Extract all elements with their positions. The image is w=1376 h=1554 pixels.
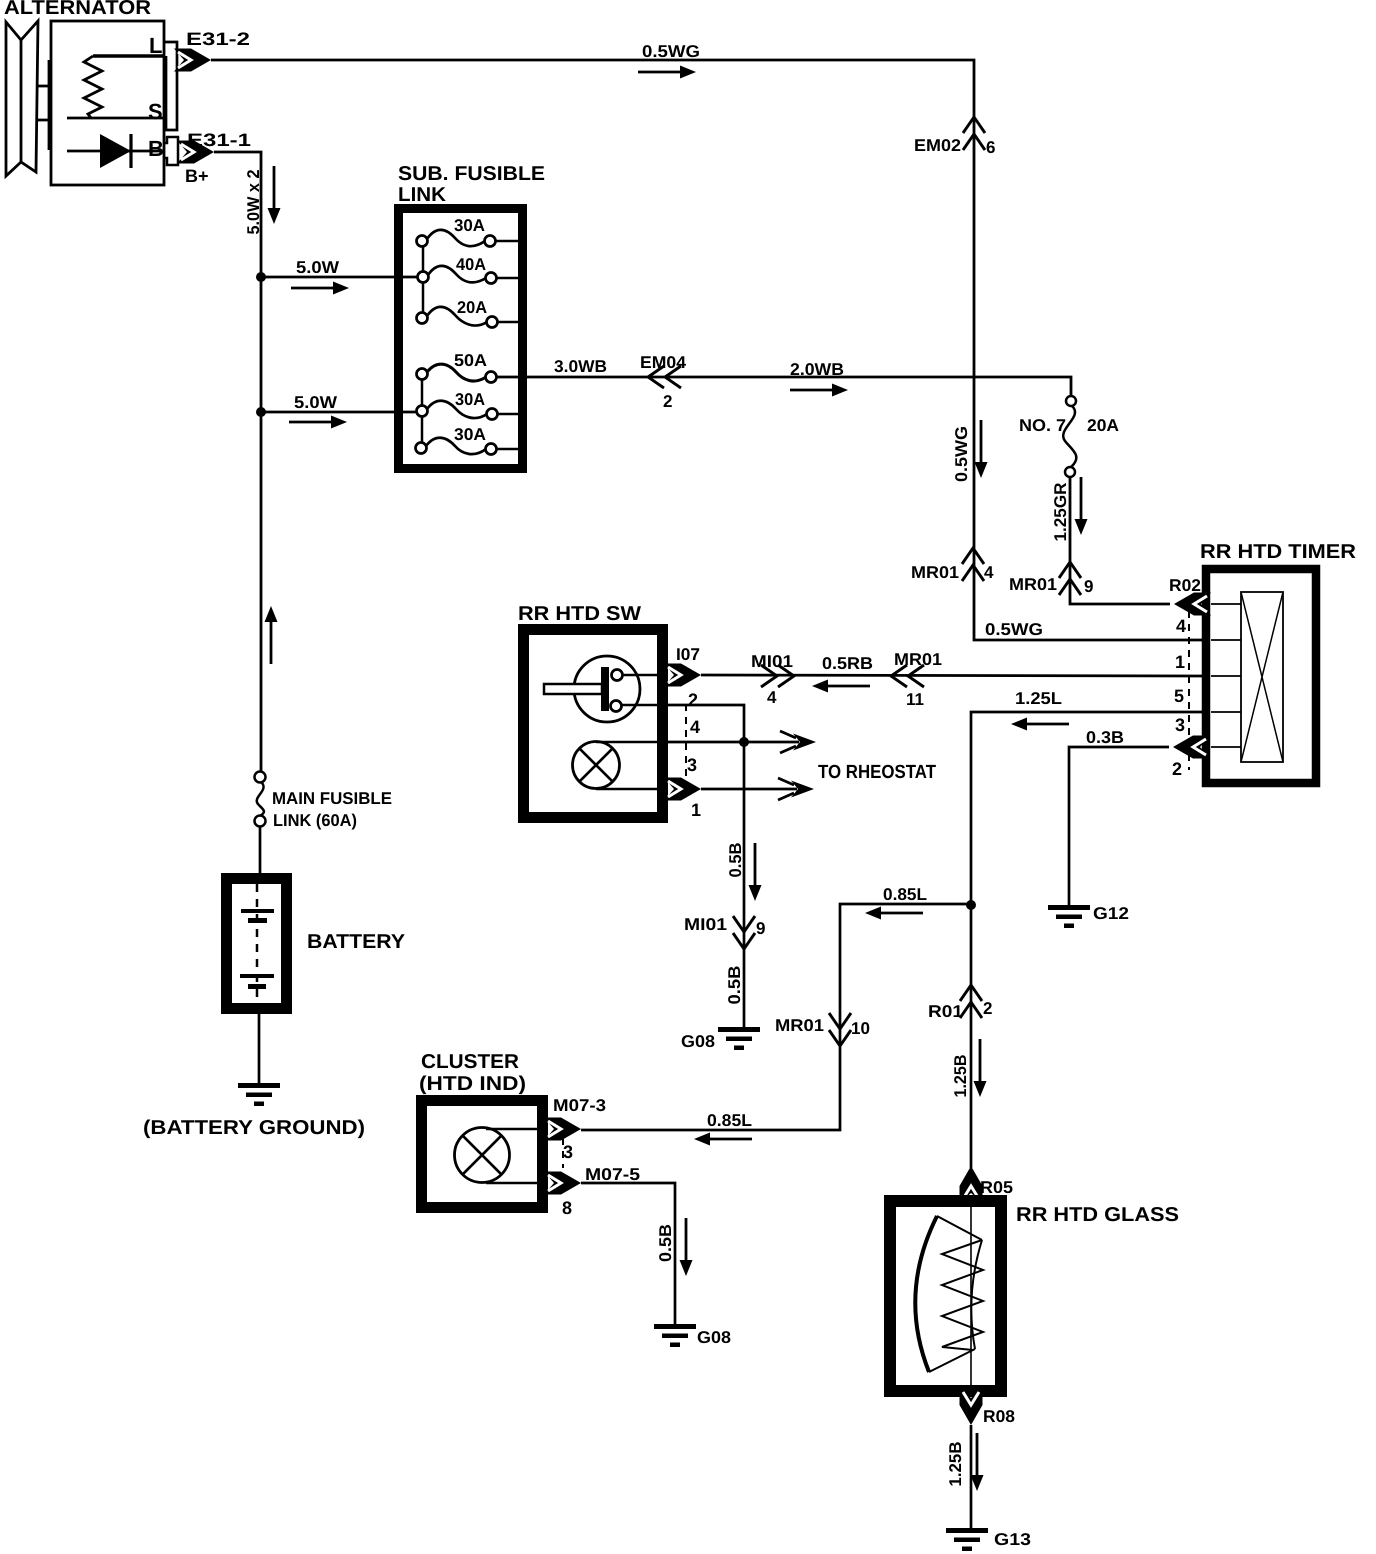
fuse main fusible link	[255, 772, 266, 783]
svg-text:2: 2	[1172, 759, 1182, 779]
svg-text:0.5WG: 0.5WG	[952, 426, 971, 482]
wire E31-2 to corner	[211, 60, 1202, 640]
wire B terminal line	[67, 150, 164, 153]
svg-text:6: 6	[986, 138, 995, 157]
svg-text:M07-5: M07-5	[585, 1165, 640, 1184]
sw dashed pin line	[685, 704, 687, 788]
svg-text:R02: R02	[1169, 576, 1201, 595]
ground G13	[946, 1528, 988, 1551]
svg-text:0.5B: 0.5B	[656, 1224, 675, 1262]
wire 50A output	[496, 377, 1071, 396]
alternator diode	[100, 134, 131, 168]
flow arrow down beside 0.5B	[749, 843, 762, 901]
wire L terminal line	[93, 54, 164, 57]
wire B+ to battery	[214, 152, 261, 772]
node junction lower 5.0W	[256, 407, 266, 417]
svg-text:EM02: EM02	[914, 136, 961, 155]
wire M07-3 to 0.85L corner	[581, 1129, 583, 1132]
svg-text:50A: 50A	[454, 351, 487, 370]
flow arrow right under 5.0W lower	[289, 416, 347, 429]
glass box	[890, 1201, 1001, 1391]
connector EM04 chevrons	[648, 366, 681, 388]
flow arrow down beside 1.25GR	[1075, 477, 1088, 535]
fuse bus lower	[421, 374, 424, 448]
fuse 30A #3	[416, 443, 427, 454]
svg-text:M07-3: M07-3	[553, 1096, 606, 1115]
connector R05 arrow	[960, 1166, 983, 1203]
svg-text:1.25B: 1.25B	[946, 1442, 965, 1487]
wire S terminal line	[67, 117, 164, 120]
wire 0.3B	[1069, 747, 1169, 906]
svg-text:4: 4	[767, 688, 777, 707]
ground G08 cluster	[654, 1324, 696, 1347]
svg-text:30A: 30A	[455, 390, 485, 409]
fuse NO.7 20A	[1066, 396, 1076, 406]
alternator pulley	[6, 21, 51, 176]
wire 1.25GR down to MR01-9 and R02	[1070, 477, 1170, 604]
timer box	[1206, 569, 1316, 783]
svg-text:ALTERNATOR: ALTERNATOR	[4, 0, 152, 19]
svg-text:L: L	[149, 33, 162, 58]
lamp symbol SW	[573, 742, 620, 789]
connector MI01 pin4 chevrons	[761, 665, 794, 687]
flow arrow left under 0.85L upper	[865, 907, 923, 920]
wire lamp bottom	[596, 788, 668, 791]
wire lamp top	[596, 741, 658, 744]
glass wire through	[970, 1196, 972, 1396]
timer dashed pin line	[1188, 598, 1190, 770]
connector I07 arrow	[664, 664, 701, 687]
flow arrow down beside 0.5B cluster	[680, 1218, 693, 1276]
fuse bus upper	[422, 241, 425, 318]
svg-text:(HTD IND): (HTD IND)	[419, 1073, 526, 1095]
svg-text:MR01: MR01	[1009, 575, 1057, 594]
wire fuse to battery	[259, 826, 262, 874]
wire switch bottom to edge	[621, 704, 658, 707]
fuse 20A	[417, 313, 428, 324]
connector MR01 pin4 chevrons	[962, 548, 984, 581]
switch circle	[574, 656, 640, 722]
svg-text:R05: R05	[980, 1178, 1013, 1197]
wire 5.0W lower	[261, 411, 418, 414]
flow arrow down beside 0.5WG	[975, 420, 988, 478]
svg-text:G13: G13	[994, 1530, 1031, 1549]
alternator field coil	[84, 56, 102, 118]
svg-text:20A: 20A	[1087, 416, 1119, 435]
svg-text:5.0W x 2: 5.0W x 2	[244, 170, 263, 235]
glass curved pane	[915, 1216, 937, 1372]
svg-text:0.5B: 0.5B	[726, 843, 745, 878]
node junction upper 5.0W	[256, 272, 266, 282]
svg-text:G08: G08	[697, 1328, 731, 1347]
switch bar	[601, 667, 609, 711]
svg-text:1: 1	[1175, 652, 1185, 672]
svg-text:30A: 30A	[454, 216, 485, 235]
svg-text:E31-2: E31-2	[186, 29, 250, 49]
lamp symbol cluster	[455, 1128, 510, 1183]
connector R01 pin2 chevrons	[960, 985, 982, 1018]
svg-text:R01: R01	[928, 1002, 963, 1021]
svg-text:I07: I07	[676, 645, 700, 664]
svg-text:NO. 7: NO. 7	[1019, 416, 1066, 435]
connector E31-2 arrow	[174, 49, 211, 72]
svg-text:30A: 30A	[454, 425, 486, 444]
flow arrow down beside 1.25B bottom	[971, 1433, 984, 1491]
svg-text:BATTERY: BATTERY	[307, 931, 406, 953]
svg-text:MI01: MI01	[684, 915, 727, 934]
connector housing E31-1	[164, 137, 178, 165]
wire 5.0W upper	[261, 276, 418, 279]
svg-text:0.5RB: 0.5RB	[822, 654, 873, 673]
switch contact bottom	[611, 701, 622, 712]
flow arrow right under 5.0W upper	[291, 282, 349, 295]
ground battery	[238, 1083, 280, 1106]
svg-text:3: 3	[687, 755, 697, 775]
flow arrow right under 2.0WB	[790, 384, 848, 397]
switch contact top	[612, 670, 623, 681]
svg-text:0.3B: 0.3B	[1086, 728, 1124, 747]
svg-text:TO RHEOSTAT: TO RHEOSTAT	[818, 762, 936, 783]
cluster box	[422, 1101, 543, 1208]
svg-text:40A: 40A	[456, 255, 486, 274]
connector MR01 pin9 chevrons	[1059, 562, 1081, 595]
svg-text:1.25GR: 1.25GR	[1051, 483, 1070, 542]
battery cell 1	[241, 909, 274, 913]
wire to rheostat lower	[701, 788, 797, 791]
svg-text:2: 2	[983, 999, 992, 1018]
wire to rheostat upper	[658, 741, 799, 744]
svg-text:0.5WG: 0.5WG	[642, 42, 700, 61]
svg-text:0.5WG: 0.5WG	[985, 620, 1043, 639]
sub fusible link box	[399, 209, 523, 469]
connector R08 arrow	[960, 1388, 983, 1425]
svg-text:4: 4	[984, 563, 994, 582]
wire 0.85L upper	[583, 904, 971, 1130]
svg-text:2: 2	[688, 690, 698, 710]
flow arrow up on battery feed	[265, 606, 278, 664]
rr htd sw box	[524, 630, 663, 818]
wire lamp to M07-3	[486, 1128, 537, 1131]
svg-text:B: B	[148, 136, 164, 161]
connector R02 arrow	[1174, 593, 1211, 616]
timer internal pin stubs	[1211, 604, 1241, 747]
connector M07-5 arrow	[544, 1172, 581, 1195]
fuse 30A #1	[417, 236, 428, 247]
svg-text:RR HTD TIMER: RR HTD TIMER	[1200, 541, 1357, 563]
svg-text:EM04: EM04	[640, 353, 687, 372]
svg-text:9: 9	[1084, 577, 1093, 596]
connector EM02 chevrons	[963, 117, 985, 150]
node junction lamp top	[739, 737, 749, 747]
svg-text:E31-1: E31-1	[187, 130, 251, 150]
battery internal dashed line	[256, 884, 259, 1004]
timer inner X rectangle	[1241, 592, 1283, 762]
wire 1.25L timer pin3 to corner	[971, 712, 1202, 1168]
flow arrow left under 0.5RB	[812, 680, 870, 693]
svg-text:SUB. FUSIBLE: SUB. FUSIBLE	[398, 163, 545, 185]
svg-text:RR HTD GLASS: RR HTD GLASS	[1016, 1204, 1179, 1226]
wire pin4 stub down	[658, 705, 744, 1029]
svg-text:RR HTD SW: RR HTD SW	[518, 603, 641, 625]
glass heater zigzag	[942, 1240, 983, 1350]
connector M07-3 arrow	[544, 1118, 581, 1141]
ground G12	[1048, 905, 1090, 928]
svg-text:2.0WB: 2.0WB	[790, 360, 844, 379]
svg-text:5.0W: 5.0W	[296, 258, 340, 277]
flow arrow left under 1.25L	[1011, 718, 1069, 731]
svg-text:1.25B: 1.25B	[951, 1055, 970, 1098]
connector sw pin1 arrow	[664, 778, 701, 801]
flow arrow down beside 5.0W x 2	[268, 166, 281, 224]
svg-text:8: 8	[562, 1198, 572, 1218]
wire M07-5 to G08	[581, 1183, 675, 1325]
connector MR01 pin11 chevrons	[891, 665, 924, 687]
svg-text:B+: B+	[185, 166, 209, 186]
flow arrow right under 0.5WG	[638, 66, 696, 79]
alternator box	[51, 21, 164, 185]
svg-text:20A: 20A	[457, 298, 487, 317]
svg-text:CLUSTER: CLUSTER	[421, 1051, 520, 1073]
svg-text:4: 4	[690, 717, 700, 737]
svg-text:MR01: MR01	[911, 563, 959, 582]
svg-text:5: 5	[1174, 686, 1184, 706]
svg-text:MAIN FUSIBLE: MAIN FUSIBLE	[272, 789, 392, 808]
connector E31-1 arrow	[177, 141, 214, 164]
wire 0.5RB I07 to timer pin1	[701, 675, 1202, 676]
wire lamp to M07-5	[486, 1182, 537, 1185]
svg-text:(BATTERY GROUND): (BATTERY GROUND)	[143, 1117, 365, 1139]
svg-text:5.0W: 5.0W	[294, 393, 338, 412]
svg-text:0.85L: 0.85L	[883, 885, 927, 904]
svg-text:3: 3	[1175, 715, 1185, 735]
connector MI01 pin9 chevrons	[733, 916, 755, 949]
fuse 50A	[417, 369, 428, 380]
svg-text:0.85L: 0.85L	[707, 1111, 752, 1130]
fuse 30A #2	[417, 406, 428, 417]
svg-text:MR01: MR01	[894, 650, 942, 669]
wire R08 to G13	[970, 1425, 973, 1530]
svg-text:MI01: MI01	[751, 652, 793, 671]
svg-text:LINK (60A): LINK (60A)	[273, 811, 357, 830]
fuse 40A	[418, 272, 429, 283]
svg-text:S: S	[148, 99, 163, 124]
svg-text:LINK: LINK	[398, 184, 447, 206]
wire battery to ground	[258, 1009, 261, 1084]
wire switch top to edge	[622, 674, 658, 677]
svg-text:4: 4	[1176, 616, 1186, 636]
svg-text:MR01: MR01	[775, 1016, 824, 1035]
svg-text:1.25L: 1.25L	[1015, 689, 1062, 708]
connector timer pin2 arrow	[1173, 736, 1210, 759]
svg-text:R08: R08	[983, 1407, 1015, 1426]
svg-text:3.0WB: 3.0WB	[554, 357, 607, 376]
connector MR01 pin10 chevrons	[829, 1013, 851, 1046]
svg-text:11: 11	[906, 690, 924, 709]
node junction 0.85L	[966, 900, 976, 910]
cluster dashed pin line	[562, 1138, 564, 1168]
svg-text:1: 1	[691, 800, 701, 820]
svg-text:0.5B: 0.5B	[725, 966, 744, 1005]
ground G08	[718, 1027, 760, 1050]
battery box	[227, 879, 287, 1009]
svg-text:G08: G08	[681, 1032, 715, 1051]
svg-text:10: 10	[851, 1019, 870, 1038]
flow arrow down beside 1.25B	[974, 1039, 987, 1097]
svg-text:9: 9	[756, 919, 765, 938]
svg-text:2: 2	[663, 392, 672, 411]
svg-text:G12: G12	[1093, 904, 1129, 923]
flow arrow left under 0.85L lower	[694, 1133, 752, 1146]
svg-text:3: 3	[563, 1142, 573, 1162]
connector housing E31-2	[164, 42, 177, 130]
switch plug handle	[544, 684, 602, 694]
battery cell 2	[240, 974, 274, 978]
